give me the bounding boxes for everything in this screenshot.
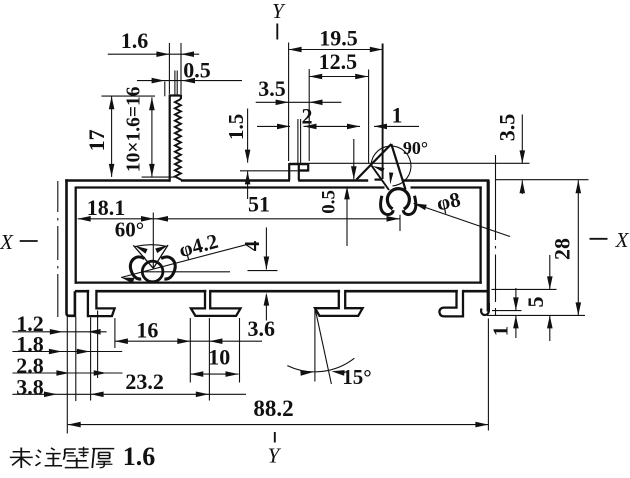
dimension 19.5 line and arrows <box>289 49 383 51</box>
svg-text:23.2: 23.2 <box>125 369 164 394</box>
extension line knurl tab left x=169.4 <box>168 43 170 94</box>
note character Zhu (note) <box>38 450 41 453</box>
T-slot cap bottom wall right part <box>298 169 308 171</box>
dimension 2 line and arrows <box>257 125 290 127</box>
svg-text:1.5: 1.5 <box>224 114 248 140</box>
profile top outer edge slot-to-notch segment <box>298 179 368 182</box>
svg-text:φ8: φ8 <box>434 187 462 215</box>
dimension 1 right lines and arrows <box>515 288 517 310</box>
svg-text:16: 16 <box>136 317 158 342</box>
omega slot left curl foot <box>381 196 394 215</box>
extension line y=177.1 (tab bottom) <box>142 176 175 178</box>
svg-text:18.1: 18.1 <box>87 195 126 220</box>
svg-text:3.5: 3.5 <box>258 76 286 101</box>
profile inner cavity right wall <box>479 187 481 284</box>
knurled tab left and top edge <box>170 96 181 182</box>
dimension 18.1 arrows <box>78 216 91 222</box>
extension line x=309.2 (12.5 left, rib right) <box>308 69 310 161</box>
svg-text:5: 5 <box>523 297 548 308</box>
dimension 88.2 line and arrows <box>68 424 489 426</box>
extension line x=97.6 <box>97 311 99 379</box>
dimension 3.5 right lines and arrows <box>521 115 523 164</box>
extension line x=67.3 (88.2 left / lip) <box>66 317 68 434</box>
extension line x=75.8 <box>75 317 77 401</box>
svg-text:1.6: 1.6 <box>123 442 156 471</box>
extension line x=488.4 (88.2 right) <box>487 319 489 431</box>
dimension 0.5 lines and arrows at hook <box>353 139 355 179</box>
note character Wei (not) <box>13 451 30 453</box>
extension line y=270.6 boss slot <box>248 270 278 272</box>
svg-text:3.8: 3.8 <box>16 374 44 399</box>
dimension 0.5 line and arrows <box>137 80 242 82</box>
profile body outer top-left edge and left wall with bottom lip <box>67 179 75 316</box>
omega slot right curl foot <box>403 196 416 215</box>
screw boss vertical centerline <box>152 213 154 269</box>
dimension 2.8 arrows <box>56 370 69 376</box>
svg-text:1: 1 <box>489 326 513 337</box>
screw boss horizontal centerline <box>142 271 230 273</box>
dimension 28 line and arrows <box>577 180 579 315</box>
extension line x=297.9 (slot stem wall) <box>297 119 299 164</box>
dimension 1.5 line and arrows <box>247 109 249 163</box>
extension line right side dash-dot x=495.5 <box>495 155 497 240</box>
foot 2 (T-shape with bevelled toes) <box>191 290 241 316</box>
extension line x=90.6 (23.2 left) <box>90 318 92 401</box>
dimension 51 arrows <box>387 216 400 222</box>
dimension 17 line and arrows <box>111 96 113 177</box>
dimension phi8 leader line <box>414 203 510 236</box>
profile inner cavity top edge left segment <box>76 186 385 188</box>
extension line x=209.4 (3.6 and 23.2 right) <box>208 318 210 401</box>
extension line x=114.9 (16 left) <box>114 318 116 348</box>
dimension 3.6 line and arrow <box>190 340 262 342</box>
extension line x=383.2 (19.5 right) <box>382 44 384 180</box>
dimension 1.6 line and arrows <box>108 53 199 55</box>
dimension 12.5 line and arrows <box>309 76 368 78</box>
svg-text:10: 10 <box>208 345 230 370</box>
svg-text:0.5: 0.5 <box>319 190 340 214</box>
svg-text:0.5: 0.5 <box>183 58 211 83</box>
extension line y=163.7 (rib top to right) <box>289 162 529 164</box>
svg-text:3.5: 3.5 <box>495 114 520 142</box>
dimension 4 line and arrow <box>265 227 267 269</box>
extension line x=300.6 (slot stem wall) <box>300 119 302 164</box>
svg-text:17: 17 <box>84 129 109 151</box>
screw boss 60deg V-slot right face <box>153 245 168 268</box>
dimension 1 line and arrows (top) <box>341 125 360 127</box>
extension line knurl tab right x=181.0 <box>180 43 182 94</box>
X axis dash right <box>590 238 608 240</box>
screw boss hole phi 4.2 <box>142 261 163 282</box>
svg-text:60°: 60° <box>115 218 144 242</box>
Y axis segment bottom <box>274 432 276 443</box>
T-slot cap box on top <box>289 164 308 180</box>
extension line x=239.5 (10 right) <box>239 318 241 383</box>
foot 3 (T-shape with bevelled toes) <box>315 290 363 316</box>
right wall bottom curl lip <box>481 303 489 315</box>
dimension 5 lines and arrows <box>549 255 551 289</box>
extension line top y=96.1 (tab top) <box>102 95 156 97</box>
omega spring-clip slot (phi 8) ring <box>387 189 409 210</box>
screw boss left ear <box>130 257 144 279</box>
svg-text:88.2: 88.2 <box>253 396 293 421</box>
dimension 18.1 and 51 shared line <box>78 218 401 220</box>
dimension 1.2 arrows <box>50 329 63 335</box>
Y axis segment top <box>276 24 278 40</box>
foot 1 (L-hook with right toe) <box>88 290 115 316</box>
rib strip thin line x=177.2 <box>176 71 178 96</box>
note character Hou (thick) <box>92 448 114 450</box>
svg-text:15°: 15° <box>342 365 371 389</box>
rib strip thin line x=174.9 <box>174 71 176 96</box>
profile top outer edge short piece at notch <box>375 179 383 181</box>
dimension 10 line and arrows <box>190 373 238 375</box>
svg-text:1: 1 <box>392 103 403 128</box>
extension line x=290 (19.5 left, rib left) <box>288 43 290 162</box>
dimension 4 lower arrow below body <box>265 295 267 321</box>
svg-text:19.5: 19.5 <box>319 25 358 50</box>
profile bottom outer edge segment foot2-to-foot3 <box>210 290 340 293</box>
profile top outer edge right segment <box>402 179 489 182</box>
fin blade 45deg edge <box>357 144 392 180</box>
dimension 15deg lines <box>314 308 316 382</box>
svg-text:3.6: 3.6 <box>247 316 275 341</box>
dimension 10x1.6=16 line and arrows <box>151 97 153 177</box>
T-slot stem right wall <box>298 164 300 180</box>
X axis dash left <box>20 240 38 242</box>
dimension 16 line and arrows <box>115 340 190 342</box>
profile inner cavity top edge right segment <box>411 186 482 188</box>
dimension 3.8 arrow <box>44 392 57 398</box>
profile inner cavity bottom edge <box>75 281 482 283</box>
extension line y=179.7 right of body <box>496 179 589 181</box>
extension line left of body (dash-dot) <box>57 181 59 212</box>
dimension 90deg arc <box>371 146 411 186</box>
svg-text:10×1.6=16: 10×1.6=16 <box>123 86 144 172</box>
note character Bi (wall) <box>65 448 76 450</box>
screw boss right ear <box>161 257 175 279</box>
profile body top outer edge left segment <box>65 179 170 182</box>
svg-text:12.5: 12.5 <box>319 49 358 74</box>
extension line x=190.3 (16 right / 10 left) <box>189 318 191 383</box>
svg-text:X: X <box>615 228 630 252</box>
profile bottom outer edge segment lip-to-foot1 <box>75 290 89 293</box>
short line x=164.8 at tab top <box>164 82 166 97</box>
fin right edge descending <box>391 144 405 190</box>
foot 4 (left toe with rounded end) <box>439 290 463 317</box>
V-notch right face descending to slot <box>371 164 390 190</box>
svg-text:51: 51 <box>248 192 270 217</box>
dimension phi4.2 leader line <box>121 244 250 278</box>
svg-text:28: 28 <box>550 238 575 260</box>
dimension 1.8 arrows <box>49 349 62 355</box>
svg-text:1.6: 1.6 <box>121 28 149 53</box>
profile inner cavity left wall <box>75 187 77 284</box>
extension line y=170.8 left of slot cap <box>240 170 298 172</box>
knurled tab serrated right edge <box>175 99 181 181</box>
dimension 60deg arc and arrowheads <box>135 245 166 247</box>
profile right wall outer <box>487 181 490 312</box>
svg-text:X: X <box>0 230 14 254</box>
profile top outer edge tab-to-slot segment <box>181 179 290 182</box>
dimension 23.2 arrows <box>91 392 104 398</box>
dimension 15deg arcs and arrows <box>287 358 354 372</box>
dimension 3.5 line and arrows <box>256 101 342 103</box>
extension line x=368.6 (12.5 right) <box>368 70 370 164</box>
extension line y=315.4 feet bottom right <box>487 314 585 316</box>
profile bottom outer edge segment foot1-to-foot2 <box>96 290 206 293</box>
svg-text:90°: 90° <box>403 138 428 158</box>
svg-text:2: 2 <box>302 104 313 129</box>
extension line y=289.4 right of body <box>492 288 557 290</box>
screw boss 60deg V-slot left face <box>133 245 153 268</box>
omega slot centerline below <box>399 215 401 231</box>
profile bottom outer edge segment foot3-to-foot4 <box>345 290 458 293</box>
extension line y=310.6 right lip <box>492 310 522 312</box>
profile bottom outer edge segment foot4-to-right-wall <box>463 290 489 293</box>
